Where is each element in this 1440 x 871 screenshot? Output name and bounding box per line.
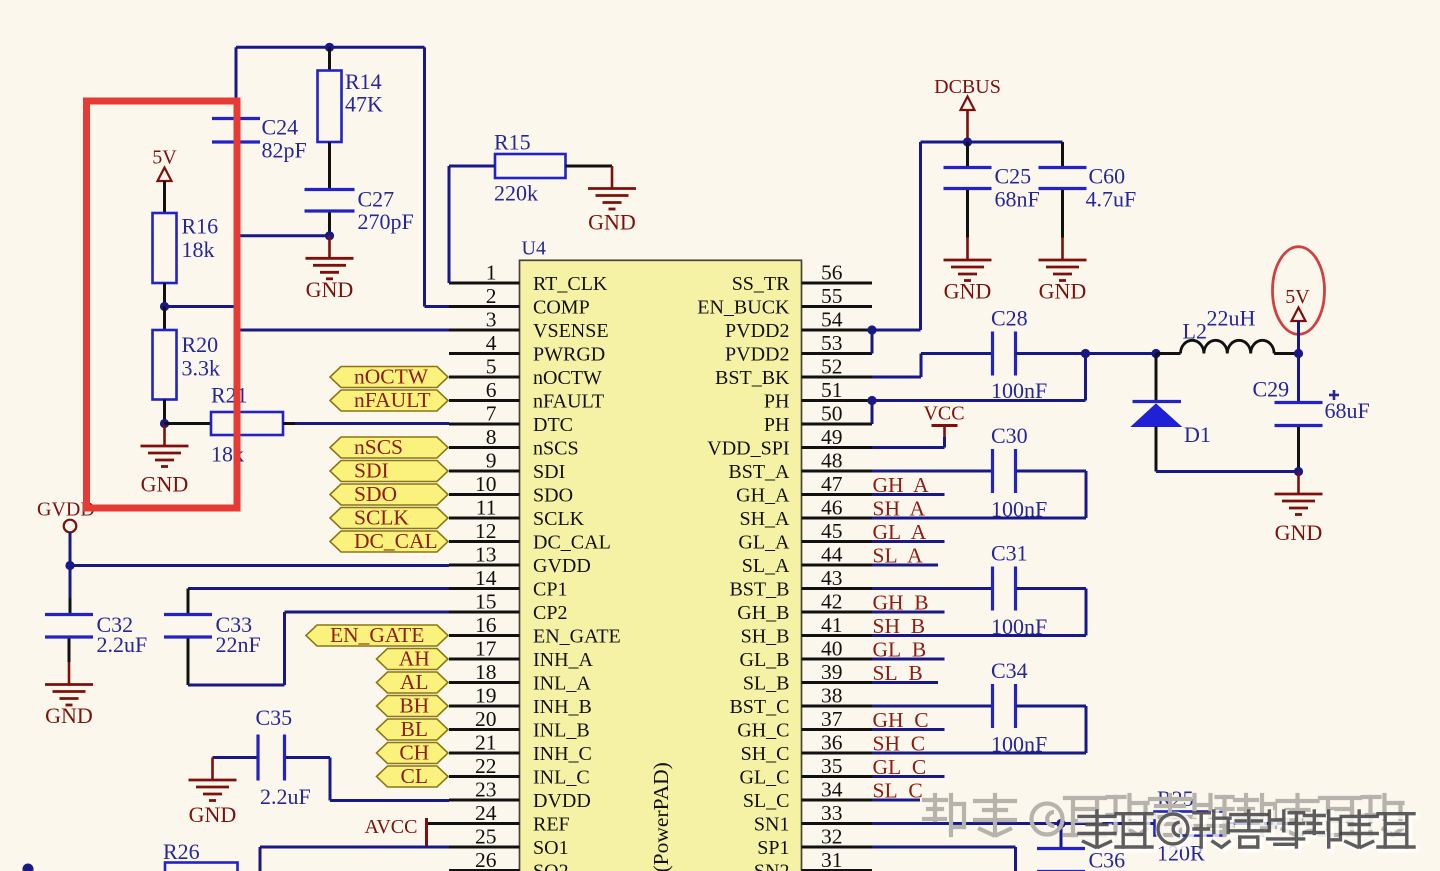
node 5V output junction: [1294, 349, 1303, 358]
capacitor C29 polarized: [1297, 354, 1300, 402]
svg-text:C24: C24: [262, 115, 299, 140]
svg-text:VSENSE: VSENSE: [533, 320, 609, 342]
svg-text:GND: GND: [141, 472, 189, 497]
capacitor C60: [1061, 142, 1064, 167]
svg-text:A(PowerPAD): A(PowerPAD): [649, 762, 673, 871]
wire PH node to D1: [1086, 352, 1157, 355]
pin 45 GL_A stub and labels: [802, 540, 873, 543]
svg-text:35: 35: [821, 754, 843, 778]
svg-text:22: 22: [475, 754, 497, 778]
wire 5V to R16: [163, 181, 166, 213]
svg-text:SH_C: SH_C: [741, 743, 790, 765]
svg-text:RT_CLK: RT_CLK: [533, 273, 608, 295]
svg-text:6: 6: [486, 378, 497, 402]
pin 46 SH_A stub and labels: [802, 517, 873, 520]
svg-text:C28: C28: [991, 306, 1028, 331]
svg-text:EN_BUCK: EN_BUCK: [697, 297, 790, 319]
svg-text:34: 34: [821, 778, 843, 802]
diode D1: [1155, 354, 1158, 401]
svg-text:26: 26: [475, 848, 497, 871]
ground below R15: [611, 166, 614, 188]
svg-text:GL_C: GL_C: [740, 767, 790, 789]
pin 44 SL_A stub and labels: [802, 564, 873, 567]
pin 21 INH_C stub and labels: [449, 752, 520, 755]
svg-text:DTC: DTC: [533, 414, 573, 436]
svg-text:12: 12: [475, 519, 497, 543]
pin 18 INL_A stub and labels: [449, 681, 520, 684]
wire C35 left to ground: [213, 756, 257, 759]
wire R15 left to pin 1: [449, 165, 495, 168]
port nSCS: [330, 437, 448, 458]
wire C24 feed: [235, 47, 238, 119]
svg-text:PVDD2: PVDD2: [725, 320, 789, 342]
svg-text:nSCS: nSCS: [354, 435, 403, 459]
svg-text:PWRGD: PWRGD: [533, 344, 605, 366]
wire VDD_SPI to VCC: [872, 446, 945, 449]
svg-text:REF: REF: [533, 814, 570, 836]
pin 37 GH_C stub and labels: [802, 728, 873, 731]
wire AVCC to REF pin 24: [428, 822, 449, 825]
svg-text:nFAULT: nFAULT: [354, 388, 430, 412]
ground below C32: [68, 662, 71, 684]
svg-text:54: 54: [821, 308, 843, 332]
capacitor C31: [991, 567, 994, 611]
svg-text:18: 18: [475, 660, 497, 684]
resistor R14: [328, 47, 331, 70]
svg-text:AVCC: AVCC: [365, 816, 418, 838]
capacitor C25: [966, 142, 969, 167]
svg-text:VDD_SPI: VDD_SPI: [707, 438, 789, 460]
svg-text:53: 53: [821, 331, 843, 355]
svg-text:R21: R21: [211, 383, 248, 408]
wire COMP top rail: [236, 46, 425, 49]
node R20 R21 ground junction: [160, 419, 169, 428]
svg-text:SL A: SL A: [873, 544, 924, 568]
pin 14 CP1 stub and labels: [449, 587, 520, 590]
svg-text:37: 37: [821, 707, 843, 731]
svg-text:1: 1: [486, 261, 497, 285]
svg-text:U4: U4: [522, 238, 546, 260]
svg-text:22nF: 22nF: [216, 632, 261, 657]
svg-text:COMP: COMP: [533, 297, 590, 319]
capacitor C27: [305, 188, 355, 191]
ground below C60: [1061, 238, 1064, 260]
wire R15 right to ground: [566, 165, 613, 168]
wire net SL_A: [872, 564, 938, 567]
svg-text:PVDD2: PVDD2: [725, 344, 789, 366]
port CH: [377, 743, 449, 764]
wire SO1 pin 25: [260, 846, 449, 849]
capacitor C24: [212, 117, 260, 120]
wire BST to capacitor C31: [872, 587, 992, 590]
svg-text:BH: BH: [399, 694, 429, 718]
capacitor C30: [991, 449, 994, 493]
svg-text:GND: GND: [189, 802, 237, 827]
capacitor C32: [45, 613, 93, 616]
svg-text:10: 10: [475, 472, 497, 496]
wire R14 to C27: [328, 142, 331, 190]
pin 34 SL_C stub and labels: [802, 799, 873, 802]
pin 49 VDD_SPI stub and labels: [802, 446, 873, 449]
pin 2 COMP stub and labels: [449, 305, 520, 308]
pin 51 PH stub and labels: [802, 399, 873, 402]
svg-text:SH_B: SH_B: [741, 626, 790, 648]
wire C31 return to SH: [1017, 587, 1087, 590]
wire C33 bottom to CP2: [187, 639, 190, 686]
node output ground junction: [1294, 467, 1303, 476]
svg-text:CP1: CP1: [533, 579, 567, 601]
capacitor C35: [256, 735, 259, 781]
svg-text:SN1: SN1: [754, 814, 790, 836]
wire CP1 to C33 top: [188, 587, 449, 590]
svg-text:R14: R14: [345, 69, 382, 94]
svg-text:GVDD: GVDD: [533, 555, 591, 577]
svg-text:SCLK: SCLK: [533, 508, 585, 530]
wire PVDD2 to rail: [872, 329, 921, 332]
svg-text:68nF: 68nF: [995, 187, 1040, 212]
wire C28 right to node: [1016, 352, 1086, 355]
svg-text:INH_A: INH_A: [533, 649, 594, 671]
IC U4 body: [520, 260, 802, 871]
capacitor C34: [991, 684, 994, 728]
svg-text:52: 52: [821, 355, 843, 379]
port SCLK: [330, 508, 448, 529]
svg-text:33: 33: [821, 801, 843, 825]
svg-text:SDI: SDI: [354, 459, 389, 483]
svg-text:INL_B: INL_B: [533, 720, 590, 742]
wire net GL_A: [872, 540, 945, 543]
svg-text:SH C: SH C: [873, 732, 926, 756]
svg-text:DVDD: DVDD: [533, 790, 591, 812]
pin 20 INL_B stub and labels: [449, 728, 520, 731]
wire net SH_A: [872, 517, 945, 520]
wire net GL_B: [872, 658, 945, 661]
power 5V right with red ellipse: [1273, 247, 1325, 335]
pin 31 SN2 stub and labels: [802, 869, 873, 871]
svg-text:22uH: 22uH: [1207, 306, 1256, 331]
svg-text:SP1: SP1: [757, 837, 789, 859]
svg-text:DC_CAL: DC_CAL: [354, 529, 438, 553]
port AL: [377, 672, 449, 693]
node bottom left dot: [23, 864, 34, 871]
pin 12 DC_CAL stub and labels: [449, 540, 520, 543]
wire net GH_C: [872, 728, 945, 731]
capacitor C33: [164, 613, 212, 616]
svg-text:3: 3: [486, 308, 497, 332]
pin 4 PWRGD stub and labels: [449, 352, 520, 355]
svg-text:C31: C31: [991, 541, 1028, 566]
port nFAULT: [330, 390, 448, 411]
svg-text:5V: 5V: [1285, 286, 1310, 308]
wire C60 to ground: [1061, 190, 1064, 238]
svg-text:C27: C27: [358, 187, 395, 212]
wire PH riser: [1084, 354, 1087, 401]
svg-text:2.2uF: 2.2uF: [260, 784, 311, 809]
capacitor C28: [991, 332, 994, 376]
wire junction to C24 branch: [237, 234, 330, 237]
svg-text:PH: PH: [764, 391, 790, 413]
wire net SL_C: [872, 799, 920, 802]
node divider tap: [160, 302, 169, 311]
svg-text:56: 56: [821, 261, 843, 285]
svg-text:SDI: SDI: [533, 461, 565, 483]
wire C25 to ground: [966, 190, 969, 238]
svg-text:SO1: SO1: [533, 837, 569, 859]
svg-text:18k: 18k: [182, 237, 215, 262]
wire C27 bottom to junction: [328, 213, 331, 236]
svg-text:INH_C: INH_C: [533, 743, 592, 765]
svg-text:C29: C29: [1253, 377, 1290, 402]
svg-text:VCC: VCC: [923, 403, 964, 425]
resistor R20: [163, 307, 166, 331]
node DCBUS junction: [963, 137, 972, 146]
svg-text:INL_C: INL_C: [533, 767, 590, 789]
svg-text:GL A: GL A: [873, 520, 927, 544]
svg-text:L2: L2: [1183, 319, 1207, 344]
svg-text:16: 16: [475, 613, 497, 637]
svg-text:SH A: SH A: [873, 497, 926, 521]
port AH: [377, 649, 449, 670]
pin 13 GVDD stub and labels: [449, 564, 520, 567]
svg-text:C35: C35: [256, 705, 293, 730]
pin 52 BST_BK stub and labels: [802, 376, 873, 379]
pin 10 SDO stub and labels: [449, 493, 520, 496]
pin 54 PVDD2 stub and labels: [802, 329, 873, 332]
pin 35 GL_C stub and labels: [802, 775, 873, 778]
wire GVDD to pin 13: [70, 564, 449, 567]
svg-text:SL_A: SL_A: [742, 555, 790, 577]
svg-text:GH_C: GH_C: [737, 720, 789, 742]
svg-text:C34: C34: [991, 658, 1028, 683]
svg-text:8: 8: [486, 425, 497, 449]
svg-text:19: 19: [475, 684, 497, 708]
svg-text:GH A: GH A: [873, 473, 930, 497]
svg-text:SL_B: SL_B: [743, 673, 790, 695]
pin 50 PH stub and labels: [802, 423, 873, 426]
svg-text:11: 11: [476, 496, 497, 520]
port BH: [377, 696, 449, 717]
svg-text:43: 43: [821, 566, 843, 590]
svg-text:GL_B: GL_B: [740, 649, 790, 671]
svg-text:GH B: GH B: [873, 591, 929, 615]
svg-text:SDO: SDO: [354, 482, 397, 506]
svg-text:nSCS: nSCS: [533, 438, 579, 460]
pin 1 RT_CLK stub and labels: [449, 282, 520, 285]
pin 3 VSENSE stub and labels: [449, 329, 520, 332]
wire C30 return to SH: [1017, 470, 1087, 473]
ground below C35 left: [211, 758, 214, 780]
svg-text:DC_CAL: DC_CAL: [533, 532, 611, 554]
svg-text:45: 45: [821, 519, 843, 543]
pin 17 INH_A stub and labels: [449, 658, 520, 661]
svg-text:14: 14: [475, 566, 497, 590]
svg-text:C30: C30: [991, 423, 1028, 448]
svg-text:SL C: SL C: [873, 779, 923, 803]
ground below C27: [328, 236, 331, 258]
svg-text:nFAULT: nFAULT: [533, 391, 604, 413]
svg-text:220k: 220k: [494, 181, 538, 206]
svg-text:AL: AL: [400, 670, 429, 694]
svg-text:BST_C: BST_C: [729, 696, 789, 718]
svg-text:GND: GND: [588, 210, 636, 235]
svg-text:50: 50: [821, 402, 843, 426]
svg-text:82pF: 82pF: [262, 138, 307, 163]
ground below C29: [1297, 472, 1300, 494]
watermark zhihu and toutiao: [924, 795, 964, 835]
pin 56 SS_TR stub and labels: [802, 282, 873, 285]
svg-text:EN_GATE: EN_GATE: [533, 626, 621, 648]
pin 47 GH_A stub and labels: [802, 493, 873, 496]
svg-text:CL: CL: [401, 764, 428, 788]
wire C34 return to SH: [1017, 705, 1087, 708]
svg-text:21: 21: [475, 731, 497, 755]
wire COMP vertical to pin 2: [423, 47, 426, 306]
svg-text:5V: 5V: [152, 147, 177, 169]
pin 43 BST_B stub and labels: [802, 587, 873, 590]
pin 9 SDI stub and labels: [449, 470, 520, 473]
wire BST to capacitor C34: [872, 705, 992, 708]
svg-text:2: 2: [486, 284, 497, 308]
wire net SL_B: [872, 681, 938, 684]
svg-text:INH_B: INH_B: [533, 696, 592, 718]
svg-text:48: 48: [821, 449, 843, 473]
svg-text:SDO: SDO: [533, 485, 573, 507]
pin 6 nFAULT stub and labels: [449, 399, 520, 402]
svg-text:41: 41: [821, 613, 843, 637]
svg-text:68uF: 68uF: [1325, 398, 1370, 423]
port nOCTW: [330, 367, 448, 388]
pin 23 DVDD stub and labels: [449, 799, 520, 802]
pin 55 EN_BUCK stub and labels: [802, 305, 873, 308]
svg-text:INL_A: INL_A: [533, 673, 591, 695]
wire PVDD2 feed down: [919, 142, 922, 330]
svg-text:R16: R16: [182, 214, 219, 239]
inductor L2: [1156, 352, 1181, 355]
svg-text:270pF: 270pF: [358, 209, 414, 234]
svg-text:SL B: SL B: [873, 661, 923, 685]
svg-text:nOCTW: nOCTW: [533, 367, 602, 389]
pin 26 SO2 stub and labels: [449, 869, 520, 871]
wire divider tap toward VSENSE: [165, 305, 238, 308]
wire PH pins 50 51: [872, 399, 1086, 402]
svg-text:3.3k: 3.3k: [182, 356, 221, 381]
svg-text:49: 49: [821, 425, 843, 449]
port SDI: [330, 461, 448, 482]
ground below divider: [163, 424, 166, 446]
svg-text:GND: GND: [306, 277, 354, 302]
svg-text:36: 36: [821, 731, 843, 755]
svg-text:AH: AH: [399, 647, 430, 671]
svg-text:GH_A: GH_A: [736, 485, 790, 507]
red highlight rectangle: [87, 101, 238, 508]
wire net GL_C: [872, 775, 945, 778]
pin 53 PVDD2 stub and labels: [802, 352, 873, 355]
wire net SH_C: [872, 752, 945, 755]
node GVDD junction: [65, 561, 74, 570]
svg-text:SL_C: SL_C: [743, 790, 790, 812]
pin 5 nOCTW stub and labels: [449, 376, 520, 379]
svg-text:23: 23: [475, 778, 497, 802]
svg-text:17: 17: [475, 637, 497, 661]
svg-text:nOCTW: nOCTW: [354, 365, 429, 389]
resistor R25: [1155, 812, 1225, 836]
wire R21 to DTC pin 7: [283, 422, 295, 425]
svg-text:GND: GND: [944, 279, 992, 304]
svg-text:R20: R20: [182, 332, 219, 357]
node C27 bottom junction: [325, 231, 334, 240]
svg-text:PH: PH: [764, 414, 790, 436]
svg-text:40: 40: [821, 637, 843, 661]
svg-text:4.7uF: 4.7uF: [1086, 187, 1137, 212]
pin 40 GL_B stub and labels: [802, 658, 873, 661]
svg-text:SN2: SN2: [754, 861, 790, 871]
svg-text:24: 24: [475, 801, 497, 825]
svg-text:CH: CH: [399, 741, 429, 765]
svg-text:32: 32: [821, 825, 843, 849]
svg-text:5: 5: [486, 355, 497, 379]
svg-text:SH_A: SH_A: [739, 508, 790, 530]
svg-text:GL C: GL C: [873, 755, 927, 779]
svg-text:47: 47: [821, 472, 843, 496]
svg-text:BL: BL: [401, 717, 428, 741]
svg-text:20: 20: [475, 707, 497, 731]
node PVDD2 junction pin 54: [867, 325, 876, 334]
node C28 PH junction: [1081, 349, 1090, 358]
wire R20 to bottom node: [163, 400, 166, 424]
svg-text:31: 31: [821, 848, 843, 871]
pin 48 BST_A stub and labels: [802, 470, 873, 473]
power 5V arrow left: [158, 168, 172, 182]
pin 38 BST_C stub and labels: [802, 705, 873, 708]
resistor R16: [153, 213, 177, 283]
wire R25 right: [1225, 822, 1297, 825]
wire GVDD down: [69, 533, 72, 566]
wire net SH_B: [872, 634, 945, 637]
node D1 top junction: [1151, 349, 1160, 358]
svg-text:7: 7: [486, 402, 497, 426]
pin 7 DTC stub and labels: [449, 423, 520, 426]
svg-text:39: 39: [821, 660, 843, 684]
svg-text:13: 13: [475, 543, 497, 567]
svg-text:GND: GND: [45, 703, 93, 728]
port SDO: [330, 484, 448, 505]
wire bottom rail D1 to C29: [1156, 470, 1299, 473]
svg-text:2.2uF: 2.2uF: [97, 632, 148, 657]
svg-text:4: 4: [486, 331, 497, 355]
wire net GH_A: [872, 493, 945, 496]
pin 15 CP2 stub and labels: [449, 611, 520, 614]
wire BST_BK from pin 52: [872, 376, 921, 379]
svg-text:SO2: SO2: [533, 861, 569, 871]
svg-text:BST_A: BST_A: [728, 461, 790, 483]
port DC_CAL: [330, 531, 448, 552]
svg-text:42: 42: [821, 590, 843, 614]
svg-text:R15: R15: [494, 130, 531, 155]
svg-text:44: 44: [821, 543, 843, 567]
wire VSENSE to pin 3: [237, 329, 449, 332]
svg-text:EN_GATE: EN_GATE: [330, 623, 424, 647]
svg-text:D1: D1: [1184, 422, 1211, 447]
svg-text:GL_A: GL_A: [738, 532, 790, 554]
pin 39 SL_B stub and labels: [802, 681, 873, 684]
wire GVDD to C32: [69, 566, 72, 599]
pin 11 SCLK stub and labels: [449, 517, 520, 520]
pin 22 INL_C stub and labels: [449, 775, 520, 778]
pin 19 INH_B stub and labels: [449, 705, 520, 708]
wire C29 to ground node: [1297, 427, 1300, 472]
port CL: [377, 766, 449, 787]
pin 41 SH_B stub and labels: [802, 634, 873, 637]
